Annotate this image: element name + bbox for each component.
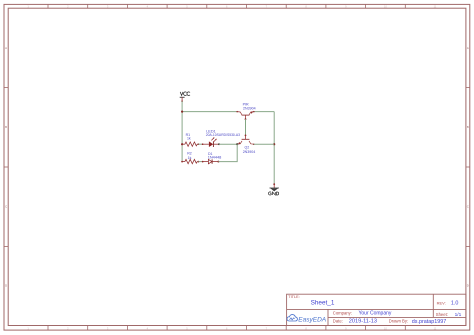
transistor Q2 (2N3904) [237, 135, 255, 154]
svg-text:TITLE:: TITLE: [288, 295, 299, 299]
wire R2 to D1 [198, 161, 202, 163]
svg-text:D: D [5, 284, 7, 288]
svg-text:Q2: Q2 [245, 145, 250, 149]
GND pin [273, 184, 275, 188]
PIR collector pin [236, 111, 238, 113]
svg-text:ds.pratap1997: ds.pratap1997 [412, 319, 446, 325]
Q2 base pin [245, 135, 247, 137]
wire LED1 to node X [219, 143, 237, 145]
svg-text:Sheet:: Sheet: [436, 312, 448, 317]
resistor R2 [182, 152, 199, 164]
Q2 base bar [242, 138, 250, 140]
transistor PIR (2N3904, top) [236, 102, 255, 120]
wire left rail [181, 101, 183, 161]
svg-text:B: B [5, 125, 7, 129]
ruler letters left A-D [5, 46, 7, 288]
wire Q2 right to right rail [254, 143, 274, 145]
ground flag GND [268, 184, 278, 195]
Q2 emitter pin with arrow [237, 141, 242, 144]
svg-text:Drawn By:: Drawn By: [389, 319, 408, 324]
svg-text:2N3904: 2N3904 [243, 150, 256, 154]
svg-text:A: A [5, 46, 7, 50]
svg-text:A: A [467, 46, 469, 50]
junction left rail / top rail [181, 111, 183, 113]
R1 body and pins [182, 143, 185, 145]
GND net name text [268, 192, 278, 195]
svg-text:D: D [467, 284, 469, 288]
svg-text:EasyEDA: EasyEDA [298, 317, 326, 324]
PIR base bar [242, 114, 250, 116]
GND symbol [270, 188, 279, 192]
ruler ticks right [466, 88, 470, 247]
LED1 body, emission arrows and pins [202, 143, 204, 145]
wire D1 to node X [218, 144, 237, 161]
svg-text:C: C [5, 204, 7, 208]
node right rail to GND [273, 183, 275, 185]
wire R1 to LED1 [198, 143, 202, 145]
diode D1 (1N4448) [202, 152, 221, 164]
wire right rail [273, 112, 275, 185]
ruler letters right A-D [467, 46, 469, 288]
svg-text:1.0: 1.0 [451, 301, 459, 307]
junction left rail / R1 row [181, 143, 183, 145]
wire top rail right segment [254, 111, 274, 113]
PIR base pin [245, 115, 247, 119]
svg-text:2019-11-13: 2019-11-13 [349, 319, 377, 325]
VCC net name text [180, 92, 190, 96]
svg-text:20A-10SURD/S530-A3: 20A-10SURD/S530-A3 [206, 133, 240, 137]
node left rail bottom corner [181, 161, 183, 163]
svg-text:Company:: Company: [333, 310, 352, 315]
ruler ticks left [4, 88, 8, 247]
svg-text:Your Company: Your Company [359, 310, 392, 316]
svg-text:1/1: 1/1 [455, 312, 462, 318]
svg-text:1k: 1k [187, 137, 191, 141]
EasyEDA logo [287, 315, 326, 324]
svg-text:B: B [467, 125, 469, 129]
svg-text:REV:: REV: [437, 301, 446, 306]
svg-text:Sheet_1: Sheet_1 [311, 299, 335, 306]
PIR emitter pin with arrow [253, 111, 255, 113]
wire PIR base to Q2 [245, 119, 247, 135]
resistor R1 [182, 133, 199, 146]
R2 body and pins [182, 161, 185, 163]
svg-text:1N4448: 1N4448 [208, 155, 222, 160]
VCC pin [181, 97, 183, 101]
VCC flag bar [180, 96, 185, 98]
svg-text:Date:: Date: [333, 319, 343, 324]
wire top rail [182, 111, 237, 113]
svg-text:C: C [467, 204, 469, 208]
ruler ticks bottom [48, 326, 405, 330]
power flag VCC [180, 92, 190, 102]
ruler ticks top [48, 4, 405, 8]
Q2 collector pin [249, 141, 254, 144]
junction right rail / Q2 row [273, 143, 275, 145]
D1 body and pins [202, 161, 204, 163]
junction node X [236, 143, 238, 145]
svg-text:2N3904: 2N3904 [243, 106, 256, 110]
svg-text:1k: 1k [188, 156, 192, 160]
LED LED1 (20A-10SURD/S530-A3) [202, 129, 240, 147]
